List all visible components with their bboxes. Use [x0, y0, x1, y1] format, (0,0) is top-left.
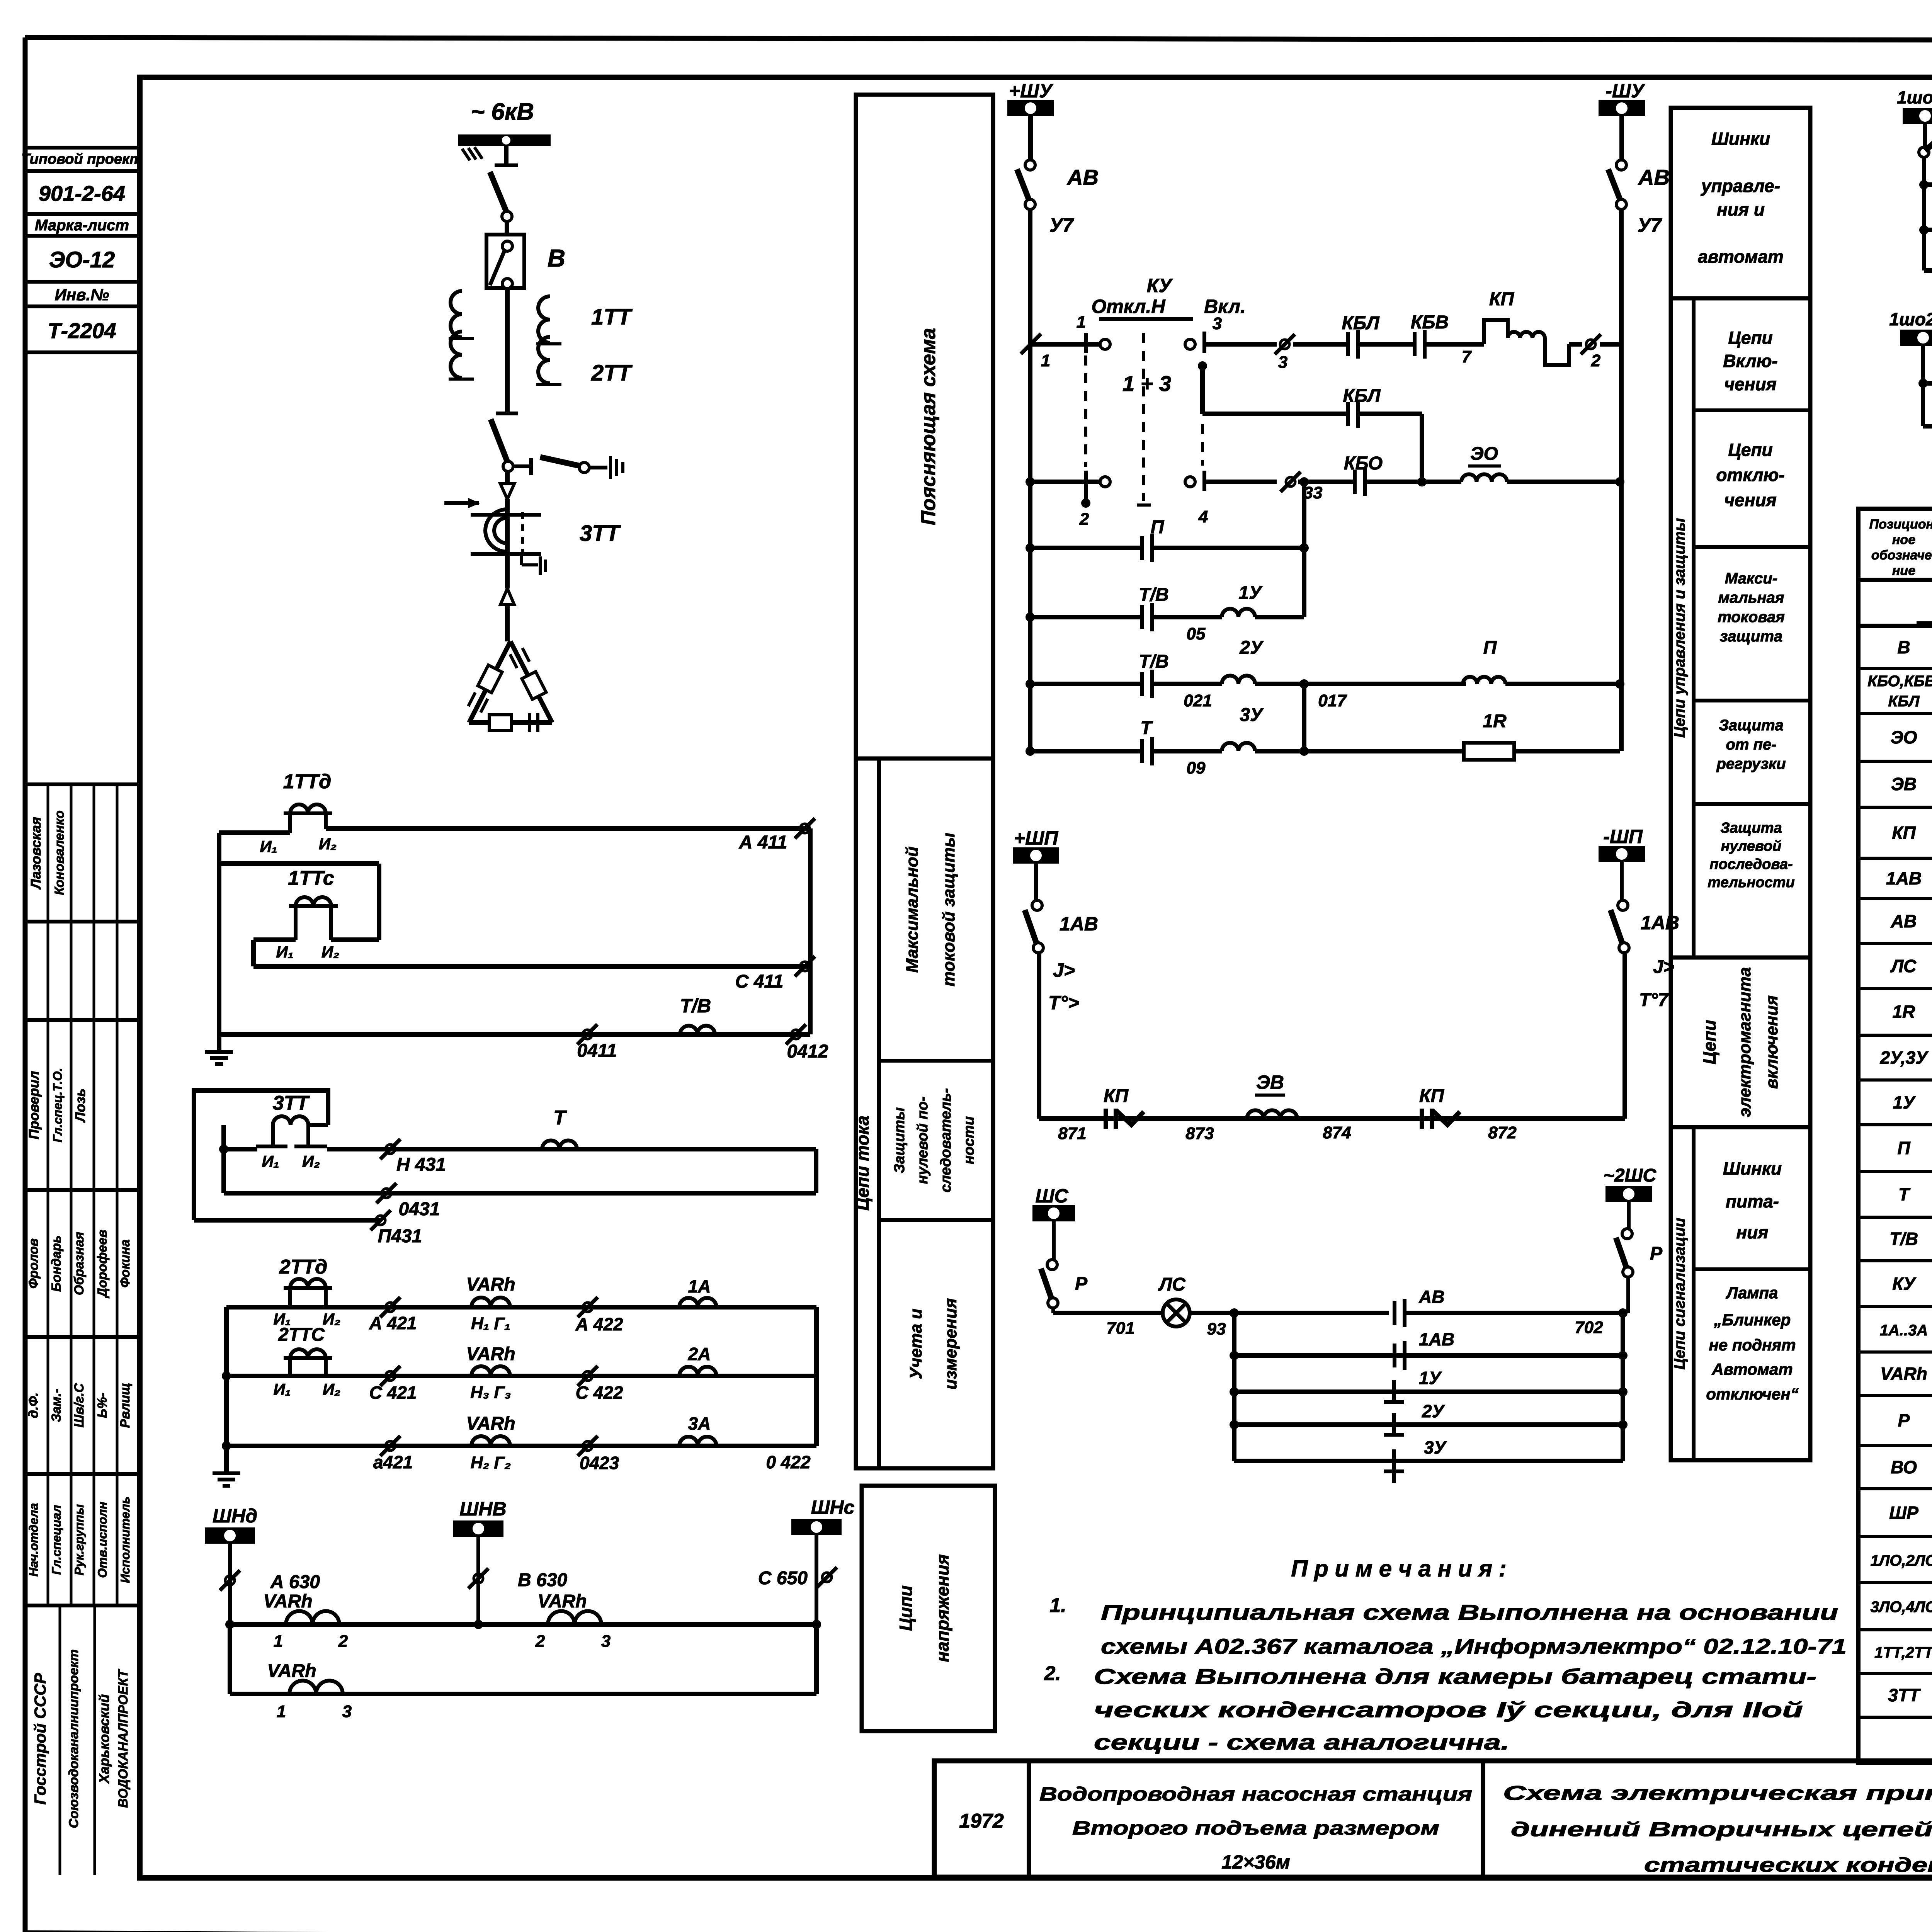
node А411 mark	[739, 818, 815, 853]
svg-text:1 + 3: 1 + 3	[1122, 371, 1171, 396]
left rail block3	[222, 1307, 231, 1473]
svg-text:ЛС: ЛС	[1890, 956, 1917, 976]
svg-text:Макси-: Макси-	[1725, 570, 1777, 587]
svg-text:3ЛО,4ЛО: 3ЛО,4ЛО	[1871, 1599, 1932, 1616]
wire 0431	[224, 1191, 816, 1196]
plug contact Р right	[1616, 1201, 1663, 1313]
svg-text:Поясняющая схема: Поясняющая схема	[917, 328, 940, 525]
ammeter coil 3А	[679, 1413, 716, 1446]
CT 1TT 2TT coils	[449, 291, 633, 386]
wire 0411-0412	[219, 1032, 810, 1037]
key КУ contact 1	[1032, 313, 1110, 353]
svg-text:Вклю-: Вклю-	[1723, 351, 1777, 371]
aux contact 1АВ rung	[1234, 1329, 1623, 1370]
svg-text:ЛС: ЛС	[1158, 1274, 1186, 1295]
svg-text:П: П	[1897, 1138, 1910, 1158]
busbar ШНд	[205, 1505, 257, 1544]
busbar ШС	[1032, 1185, 1075, 1221]
node 0412 mark	[786, 1024, 828, 1062]
svg-text:напряжения: напряжения	[932, 1554, 952, 1662]
svg-text:Лазовская: Лазовская	[28, 817, 44, 890]
svg-text:КП: КП	[1104, 1086, 1129, 1106]
label box: Шинки управления и автомат	[1671, 108, 1810, 298]
table row: indicating relay 1У	[1893, 1092, 1932, 1116]
table row: toggle switch	[1891, 1457, 1932, 1481]
svg-text:„Блинкер: „Блинкер	[1714, 1311, 1791, 1329]
wire В630	[468, 1535, 567, 1624]
svg-text:статических конденсаторов: статических конденсаторов	[1644, 1854, 1932, 1876]
svg-text:-ШУ: -ШУ	[1605, 80, 1646, 102]
svg-text:1R: 1R	[1893, 1002, 1915, 1022]
block contact КБЛ second	[1202, 386, 1422, 481]
node 1 slash on left rail	[1021, 334, 1050, 370]
svg-text:С 650: С 650	[758, 1568, 808, 1588]
svg-text:~2ШС: ~2ШС	[1604, 1165, 1657, 1186]
svg-text:Рук.группы: Рук.группы	[72, 1504, 86, 1575]
label cell: Защита нулевой последовательности	[1708, 820, 1794, 891]
svg-text:1ТТс: 1ТТс	[288, 867, 334, 889]
svg-text:ния и: ния и	[1717, 199, 1765, 219]
wire 1ТТс loop	[219, 864, 379, 966]
svg-text:И₂: И₂	[321, 943, 339, 961]
svg-text:1АВ: 1АВ	[1419, 1329, 1454, 1349]
svg-text:3: 3	[1213, 314, 1222, 333]
svg-text:1ТТ,2ТТ: 1ТТ,2ТТ	[1874, 1644, 1932, 1661]
svg-text:Защиты: Защиты	[891, 1107, 908, 1173]
busbar +ШУ	[1007, 80, 1054, 116]
svg-text:Лозь: Лозь	[72, 1088, 88, 1123]
table row: contactor	[1892, 823, 1932, 847]
node 2 mark	[1581, 334, 1620, 370]
svg-text:ШНс: ШНс	[811, 1497, 855, 1518]
lamp 3ЛО row	[1924, 204, 1932, 243]
svg-text:пита-: пита-	[1726, 1191, 1779, 1211]
svg-text:Схема электрическая принципи: Схема электрическая принципиальная сое-	[1503, 1782, 1932, 1804]
cable termination down	[500, 471, 514, 514]
svg-text:VARh: VARh	[466, 1413, 515, 1434]
svg-text:1: 1	[1077, 313, 1086, 332]
wire 3ТТ outer loop	[194, 1090, 328, 1220]
key КУ contact 2	[1032, 471, 1110, 529]
svg-text:7: 7	[1462, 347, 1472, 366]
svg-text:Т°7: Т°7	[1639, 990, 1669, 1010]
busbar +ШП	[1013, 827, 1059, 864]
svg-text:1: 1	[1041, 351, 1050, 370]
svg-text:1А: 1А	[688, 1276, 711, 1296]
indicating relay coil 1У	[1152, 543, 1309, 617]
svg-text:Принципиальная схема Выполне: Принципиальная схема Выполнена на основа…	[1101, 1600, 1838, 1624]
right rail control	[1619, 209, 1624, 751]
table row: resistor	[1893, 1002, 1932, 1026]
svg-text:1шо220: 1шо220	[1889, 309, 1932, 329]
node 0431 mark	[376, 1183, 440, 1219]
wire +ШП rail	[1037, 953, 1041, 1119]
svg-text:И₁: И₁	[262, 1152, 279, 1170]
label cell: Максимальной токовой защиты	[903, 833, 958, 986]
svg-text:1: 1	[277, 1702, 286, 1721]
meter voltage coil VARh 2-3	[535, 1591, 611, 1651]
svg-text:С 411: С 411	[735, 971, 784, 992]
svg-text:секции - схема аналогична.: секции - схема аналогична.	[1094, 1730, 1509, 1754]
svg-text:Водопроводная насосная станц: Водопроводная насосная станция	[1039, 1783, 1472, 1805]
wire breaker to CT	[505, 288, 510, 413]
svg-text:Исполнитель: Исполнитель	[118, 1497, 132, 1583]
wire to breaker	[505, 221, 509, 235]
svg-text:ЭО: ЭО	[1470, 444, 1498, 464]
wire -ШП rail	[1622, 953, 1627, 1119]
trip coil ЭО	[1461, 444, 1624, 486]
svg-text:Н₁ Г₁: Н₁ Г₁	[471, 1314, 510, 1333]
svg-text:КБО,КБВ,: КБО,КБВ,	[1867, 673, 1932, 690]
svg-text:ШНд: ШНд	[213, 1505, 257, 1527]
key КУ labels	[1091, 275, 1245, 319]
svg-text:П431: П431	[378, 1226, 422, 1247]
relay contact П row	[1030, 477, 1309, 562]
indicating relay coil 2У	[1152, 638, 1466, 710]
svg-text:Дорофеев: Дорофеев	[95, 1230, 110, 1298]
svg-text:Шинки: Шинки	[1711, 129, 1770, 149]
svg-text:Т: Т	[1898, 1184, 1911, 1204]
svg-text:П р и м е ч а н и я :: П р и м е ч а н и я :	[1291, 1556, 1506, 1582]
meter voltage coil VARh 1-3	[267, 1661, 352, 1721]
svg-text:Гл.специал: Гл.специал	[49, 1505, 63, 1575]
svg-text:0 422: 0 422	[766, 1452, 811, 1472]
lighting left rail 36V	[1919, 157, 1929, 270]
svg-text:Шв/г.С: Шв/г.С	[72, 1383, 87, 1427]
left stamp strip grid	[25, 148, 140, 1875]
svg-text:В 630: В 630	[518, 1570, 567, 1590]
busbar -ШУ	[1599, 80, 1646, 116]
node Н431 mark	[380, 1139, 446, 1175]
svg-text:12×36м: 12×36м	[1221, 1851, 1290, 1873]
closing circuit bottom wire	[1039, 1119, 1625, 1143]
svg-text:последова-: последова-	[1709, 856, 1793, 872]
label box: Цепи электромагнита включения	[1671, 957, 1810, 1127]
svg-text:И₁: И₁	[260, 837, 277, 855]
ladder right rail	[1618, 1308, 1628, 1461]
CT 3ТТ earth-fault	[256, 1092, 327, 1170]
svg-text:1шо36: 1шо36	[1897, 87, 1932, 107]
label cell: Цепи отключения	[1694, 440, 1810, 547]
wire 1ТТд left leg to ground rail	[219, 829, 290, 1034]
svg-text:Цепи управления и защиты: Цепи управления и защиты	[1671, 518, 1688, 738]
label box: Цепи тока group	[852, 759, 993, 1468]
svg-text:1: 1	[274, 1632, 283, 1651]
contactor coil КП	[1484, 289, 1582, 365]
svg-text:Позицион-: Позицион-	[1869, 517, 1932, 532]
svg-text:3У: 3У	[1424, 1437, 1447, 1458]
svg-text:Образная: Образная	[72, 1232, 87, 1295]
svg-text:Учета и: Учета и	[906, 1309, 925, 1379]
relay contact Т row 3У	[1030, 718, 1206, 777]
svg-text:Бондарь: Бондарь	[49, 1235, 64, 1292]
CT 1ТТс	[276, 867, 340, 961]
socket row ШР	[1924, 106, 1932, 199]
key КУ contact 3	[1185, 314, 1277, 353]
svg-text:мальная: мальная	[1718, 589, 1784, 606]
table row: current relay Т/В	[1889, 1229, 1932, 1253]
svg-text:Фролов: Фролов	[26, 1238, 41, 1289]
svg-text:В: В	[1897, 637, 1910, 657]
svg-text:872: 872	[1488, 1123, 1517, 1142]
svg-text:Отв.исполн: Отв.исполн	[95, 1502, 109, 1578]
table row: reactive energy meter	[1880, 1354, 1932, 1394]
cable termination up	[500, 588, 514, 641]
svg-text:ШС: ШС	[1035, 1185, 1068, 1207]
wire to lamp ЛС	[1053, 1308, 1163, 1338]
svg-text:Шинки: Шинки	[1723, 1158, 1782, 1179]
svg-text:+ШП: +ШП	[1014, 827, 1058, 849]
breaker contact 1АВ left	[1025, 862, 1098, 1014]
svg-text:3: 3	[1278, 353, 1287, 372]
wire С630	[758, 1534, 837, 1624]
svg-text:нулевой: нулевой	[1721, 838, 1782, 854]
table row: circuit breaker aux contacts	[1897, 627, 1932, 667]
svg-text:VARh: VARh	[267, 1661, 316, 1681]
svg-text:не поднят: не поднят	[1709, 1336, 1796, 1354]
node А422 mark	[575, 1297, 623, 1334]
block contact КБЛ	[1342, 313, 1413, 359]
table row: automatic breaker АВ	[1891, 901, 1932, 941]
table row: earth fault CT	[1888, 1675, 1932, 1715]
svg-text:тельности: тельности	[1708, 874, 1794, 891]
node С411 mark	[735, 956, 815, 992]
svg-text:С 421: С 421	[369, 1383, 417, 1403]
svg-text:ШР: ШР	[1889, 1503, 1918, 1523]
relay contact 3У rung	[1234, 1437, 1623, 1483]
svg-text:токовая: токовая	[1718, 609, 1785, 626]
svg-text:А 421: А 421	[369, 1313, 417, 1333]
table header Позиционное обозначение	[1869, 517, 1932, 578]
node 3 mark	[1275, 334, 1346, 372]
table row: indicating relay 2У 3У	[1880, 1048, 1932, 1071]
svg-text:КБЛ: КБЛ	[1342, 313, 1379, 333]
signal lamp ЛС	[1158, 1274, 1190, 1327]
breaker contact 1АВ right	[1611, 861, 1679, 1010]
svg-text:ности: ности	[961, 1116, 977, 1164]
indicating relay coil 3У	[1152, 679, 1464, 756]
svg-text:чения: чения	[1724, 374, 1776, 394]
busbar ~2ШС	[1604, 1165, 1657, 1202]
svg-text:измерения: измерения	[941, 1298, 960, 1390]
ammeter coil 2А	[679, 1344, 716, 1376]
table row: universal packet key	[1892, 1264, 1932, 1304]
svg-text:2А: 2А	[688, 1344, 711, 1364]
block contact КБВ	[1411, 312, 1484, 366]
relay contact Т/В row 1У	[1030, 585, 1206, 643]
svg-text:схемы А02.367 каталога „Инф: схемы А02.367 каталога „Информэлектро“ 0…	[1101, 1634, 1847, 1658]
table row: ammeters	[1880, 1319, 1932, 1343]
node 0423 mark	[578, 1436, 619, 1473]
svg-text:Р: Р	[1650, 1243, 1663, 1264]
label box: Цепи напряжения	[862, 1486, 995, 1731]
meter coil VARh phase C	[466, 1344, 515, 1402]
contactor contact КП 2	[1419, 1086, 1517, 1142]
table row: current transformers 1ТТ 2ТТ	[1874, 1641, 1932, 1665]
svg-text:ВОДОКАНАЛПРОЕКТ: ВОДОКАНАЛПРОЕКТ	[116, 1668, 131, 1808]
table row: automatic breaker 1АВ	[1886, 858, 1932, 898]
svg-text:отклю-: отклю-	[1716, 465, 1784, 485]
capacitor bank delta	[468, 641, 552, 732]
svg-text:3ТТ: 3ТТ	[580, 521, 621, 546]
equipment table frame	[1858, 509, 1932, 1763]
lighting left rail 220V	[1918, 344, 1928, 426]
svg-text:1У: 1У	[1419, 1368, 1442, 1388]
svg-text:Коноваленко: Коноваленко	[52, 810, 67, 895]
label cell: Цепи включения	[1694, 328, 1810, 410]
wire А421 row	[226, 1305, 816, 1310]
svg-text:Цепи сигнализации: Цепи сигнализации	[1671, 1218, 1688, 1370]
svg-text:Т-2204: Т-2204	[48, 318, 116, 343]
svg-text:901-2-64: 901-2-64	[39, 181, 125, 206]
busbar 6kV	[458, 134, 551, 160]
svg-text:токовой защиты: токовой защиты	[939, 833, 958, 986]
label cell: Шинки питания	[1694, 1158, 1810, 1269]
table section Камера КСО-266	[1917, 594, 1932, 623]
svg-text:от пе-: от пе-	[1726, 736, 1776, 753]
svg-text:а421: а421	[373, 1452, 413, 1472]
node 0411 mark	[577, 1024, 617, 1061]
svg-text:Ь%-: Ь%-	[95, 1393, 110, 1418]
svg-text:следователь-: следователь-	[938, 1088, 954, 1192]
ground current block1	[205, 1034, 233, 1064]
svg-text:Н 431: Н 431	[396, 1155, 446, 1175]
resistor 1R	[1464, 711, 1620, 760]
svg-text:874: 874	[1323, 1123, 1351, 1142]
svg-text:АВ: АВ	[1066, 165, 1099, 189]
table row: closing electromagnet	[1891, 764, 1932, 804]
svg-text:+ШУ: +ШУ	[1009, 80, 1054, 102]
svg-text:динений Вторичных цепей кам: динений Вторичных цепей камеры батарей	[1511, 1818, 1932, 1841]
ground block3	[213, 1471, 240, 1475]
svg-text:Т°>: Т°>	[1048, 992, 1079, 1014]
svg-text:АВ: АВ	[1891, 911, 1917, 931]
svg-text:Вкл.: Вкл.	[1204, 296, 1246, 317]
busbar ШНВ	[453, 1498, 507, 1537]
svg-text:Цепи: Цепи	[1699, 1020, 1719, 1064]
zero sequence CT 3ТТ	[444, 498, 621, 588]
svg-text:1ТТ: 1ТТ	[591, 304, 633, 330]
svg-text:Второго подъема размером: Второго подъема размером	[1072, 1817, 1439, 1839]
svg-text:Инв.№: Инв.№	[55, 286, 109, 304]
note 2 text	[1094, 1664, 1816, 1754]
svg-text:Т: Т	[1140, 718, 1153, 738]
wire +ШУ drop	[1028, 115, 1033, 160]
svg-text:Марка-лист: Марка-лист	[35, 217, 129, 234]
svg-text:Союзводоканалниипроект: Союзводоканалниипроект	[66, 1650, 81, 1828]
svg-text:Максимальной: Максимальной	[903, 847, 922, 973]
svg-text:электромагнита: электромагнита	[1735, 967, 1754, 1117]
svg-text:VARh: VARh	[466, 1344, 515, 1364]
svg-text:Откл.Н: Откл.Н	[1091, 296, 1165, 317]
svg-text:701: 701	[1106, 1319, 1134, 1338]
svg-text:Гл.спец.Т.О.: Гл.спец.Т.О.	[51, 1068, 65, 1143]
svg-text:И₁: И₁	[276, 943, 294, 961]
label strip: Цепи сигнализации	[1671, 1127, 1810, 1460]
label cell: Защиты нулевой последовательности	[891, 1088, 977, 1192]
svg-text:2ТТС: 2ТТС	[278, 1325, 325, 1345]
svg-text:ВО: ВО	[1891, 1457, 1917, 1477]
svg-text:П: П	[1483, 638, 1497, 658]
svg-text:У7: У7	[1049, 214, 1074, 236]
svg-text:КБЛ: КБЛ	[1343, 386, 1381, 406]
node А421 mark	[369, 1297, 417, 1333]
node С421 mark	[369, 1366, 417, 1403]
svg-text:021: 021	[1184, 691, 1212, 710]
title block frame	[934, 1761, 1932, 1877]
block contact КБО	[1344, 453, 1461, 496]
svg-text:1.: 1.	[1049, 1594, 1066, 1617]
svg-text:КП: КП	[1489, 289, 1515, 310]
svg-text:управле-: управле-	[1701, 176, 1780, 196]
breaker contact АВ left	[1017, 160, 1099, 236]
breaker aux contact АВ signal	[1395, 1287, 1623, 1337]
svg-text:Рвлищ: Рвлищ	[118, 1383, 133, 1428]
svg-text:Проверил: Проверил	[26, 1071, 42, 1139]
relay coil Т/В in current circuit	[680, 995, 715, 1034]
svg-text:Госстрой СССР: Госстрой СССР	[31, 1672, 49, 1804]
wire bus stub	[495, 146, 518, 165]
svg-text:4: 4	[1198, 507, 1208, 526]
svg-text:VARh: VARh	[466, 1274, 515, 1295]
svg-text:Фокина: Фокина	[118, 1240, 133, 1288]
svg-text:д.Ф.: д.Ф.	[26, 1393, 41, 1418]
svg-text:93: 93	[1207, 1320, 1226, 1338]
note 1 text	[1101, 1600, 1847, 1658]
svg-text:чения: чения	[1724, 490, 1776, 510]
wire А630	[220, 1542, 320, 1624]
table row: drive block contacts	[1867, 671, 1932, 711]
svg-text:ния: ния	[1736, 1222, 1769, 1242]
svg-text:0431: 0431	[399, 1199, 440, 1219]
svg-text:VARh: VARh	[537, 1591, 587, 1612]
svg-text:защита: защита	[1720, 628, 1782, 645]
svg-text:05: 05	[1187, 624, 1206, 643]
relay contact Т/В row 2У	[1030, 651, 1212, 710]
svg-text:1ЛО,2ЛО: 1ЛО,2ЛО	[1871, 1552, 1932, 1569]
svg-text:КП: КП	[1419, 1086, 1445, 1106]
svg-text:ЭВ: ЭВ	[1256, 1071, 1284, 1093]
svg-text:Защита: Защита	[1719, 717, 1784, 734]
table row: three pole connector	[1898, 1410, 1932, 1434]
ammeter coil 1А	[679, 1276, 716, 1307]
toggle switch ВО	[1919, 122, 1932, 157]
svg-text:3: 3	[601, 1632, 611, 1651]
svg-text:С 422: С 422	[576, 1383, 623, 1403]
table row: current relay Т	[1898, 1184, 1932, 1208]
svg-text:VARh: VARh	[263, 1591, 312, 1612]
right return riser block1	[808, 828, 813, 1034]
title block drawing name	[1503, 1782, 1932, 1876]
relay contact 2У rung	[1234, 1401, 1623, 1436]
right riser block3	[814, 1307, 819, 1446]
svg-text:2У: 2У	[1239, 638, 1264, 658]
svg-text:Т/В: Т/В	[680, 995, 711, 1017]
label box: Поясняющая схема	[856, 95, 993, 759]
svg-text:ние: ние	[1892, 563, 1915, 578]
svg-text:2: 2	[535, 1632, 545, 1651]
node С422 mark	[576, 1366, 623, 1403]
svg-text:КУ: КУ	[1892, 1274, 1917, 1294]
svg-text:702: 702	[1575, 1318, 1603, 1337]
svg-text:3ТТ: 3ТТ	[1888, 1685, 1921, 1705]
wire 0421 row	[226, 1444, 816, 1448]
svg-text:Типовой проект: Типовой проект	[21, 151, 143, 167]
svg-text:Т/В: Т/В	[1889, 1229, 1918, 1249]
voltage row 2 wire	[230, 1624, 816, 1694]
meter coil VARh neutral	[466, 1413, 515, 1472]
label strip: Цепи управления и защиты	[1671, 298, 1810, 957]
